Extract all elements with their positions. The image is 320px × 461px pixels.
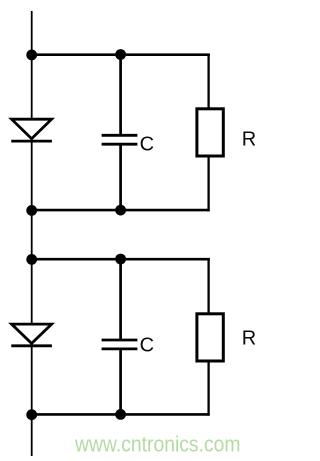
capacitor C (section 2) <box>102 339 138 342</box>
svg-text:C: C <box>140 335 154 357</box>
resistor R (section 2) <box>197 314 223 361</box>
node: junction dot section1 bottom-cap <box>115 205 126 216</box>
resistor R (section 1) <box>197 109 223 156</box>
wire: capacitor C branch lower (section 2) <box>119 349 122 414</box>
wire: section 2 right vertical to resistor R top <box>207 259 209 313</box>
wire: left vertical bus (bottom segment, from D2 cathode down) <box>31 345 33 456</box>
node: junction dot section2 bottom-left <box>26 409 37 420</box>
svg-text:R: R <box>242 328 256 350</box>
wire: capacitor C branch upper (section 1) <box>119 55 122 135</box>
wire: section 2 resistor bottom to bottom rail <box>207 361 209 416</box>
node: junction dot section1 top-left <box>26 50 37 61</box>
capacitor C (section 1) <box>102 134 138 137</box>
diode D1 (section 1) <box>11 119 52 141</box>
wire: section 1 top horizontal <box>32 53 210 56</box>
diode D2 (section 2) <box>11 324 52 346</box>
node: junction dot section1 bottom-left <box>26 205 37 216</box>
svg-text:www.cntronics.com: www.cntronics.com <box>74 432 240 457</box>
wire: capacitor C branch lower (section 1) <box>119 145 122 211</box>
wire: section 2 bottom horizontal <box>32 413 210 416</box>
svg-text:R: R <box>242 129 256 151</box>
wire: left vertical bus (top segment, stops at diode D1) <box>31 11 33 121</box>
wire: left vertical bus (middle segment, D1 cathode to D2 anode) <box>31 140 33 325</box>
svg-text:C: C <box>140 133 154 155</box>
wire: section 1 bottom horizontal <box>32 209 210 212</box>
wire: section 1 right vertical to resistor R top <box>207 55 209 108</box>
wire: section 1 resistor bottom to bottom rail <box>207 156 209 211</box>
node: junction dot section2 top-left <box>26 254 37 265</box>
node: junction dot section2 bottom-cap <box>115 409 126 420</box>
wire: capacitor C branch upper (section 2) <box>119 259 122 339</box>
node: junction dot section2 top-cap <box>115 254 126 265</box>
node: junction dot section1 top-cap <box>115 49 126 60</box>
wire: section 2 top horizontal <box>32 258 210 261</box>
